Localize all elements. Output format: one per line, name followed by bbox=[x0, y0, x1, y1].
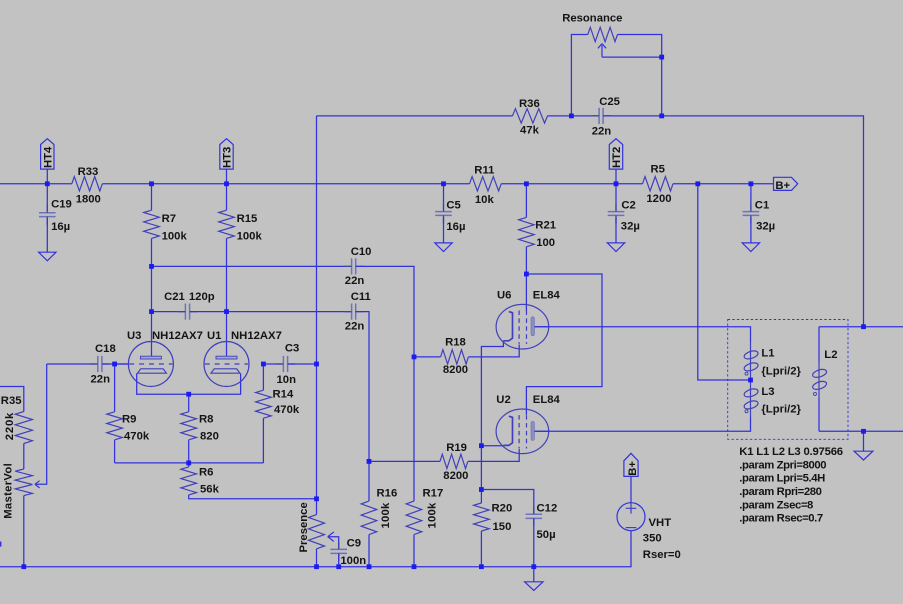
svg-text:HT3: HT3 bbox=[222, 147, 234, 168]
svg-text:22n: 22n bbox=[345, 275, 365, 287]
svg-text:B+: B+ bbox=[627, 461, 639, 476]
svg-text:Resonance: Resonance bbox=[562, 12, 622, 24]
svg-text:.param Zpri=8000: .param Zpri=8000 bbox=[739, 459, 826, 471]
svg-text:R11: R11 bbox=[474, 165, 494, 177]
svg-text:C9: C9 bbox=[347, 538, 361, 550]
svg-text:VHT: VHT bbox=[649, 517, 672, 529]
svg-text:MasterVol: MasterVol bbox=[2, 463, 14, 519]
svg-text:R5: R5 bbox=[651, 164, 665, 176]
svg-text:{Lpri/2}: {Lpri/2} bbox=[761, 366, 801, 378]
svg-text:U3: U3 bbox=[127, 330, 141, 342]
svg-text:L3: L3 bbox=[761, 386, 774, 398]
svg-text:100k: 100k bbox=[237, 231, 263, 243]
svg-text:Rser=0: Rser=0 bbox=[643, 549, 681, 561]
svg-text:R16: R16 bbox=[377, 487, 398, 499]
svg-text:R14: R14 bbox=[273, 389, 294, 401]
svg-text:.param Zsec=8: .param Zsec=8 bbox=[739, 499, 813, 511]
svg-text:R36: R36 bbox=[519, 98, 540, 110]
svg-text:16µ: 16µ bbox=[51, 221, 70, 233]
svg-text:350: 350 bbox=[643, 533, 662, 545]
svg-text:EL84: EL84 bbox=[533, 394, 561, 406]
svg-text:R20: R20 bbox=[492, 502, 513, 514]
svg-text:8200: 8200 bbox=[443, 364, 468, 376]
svg-text:C10: C10 bbox=[351, 246, 372, 258]
svg-text:C25: C25 bbox=[599, 96, 620, 108]
svg-text:22n: 22n bbox=[592, 125, 612, 137]
svg-text:L2: L2 bbox=[824, 349, 837, 361]
svg-text:100k: 100k bbox=[380, 502, 392, 528]
svg-text:56k: 56k bbox=[200, 483, 220, 495]
svg-text:U2: U2 bbox=[496, 394, 510, 406]
svg-text:470k: 470k bbox=[274, 404, 300, 416]
svg-text:100n: 100n bbox=[340, 555, 366, 567]
svg-text:C21: C21 bbox=[164, 291, 185, 303]
svg-text:100: 100 bbox=[536, 237, 555, 249]
svg-text:L1: L1 bbox=[761, 348, 774, 360]
svg-text:100k: 100k bbox=[427, 502, 439, 528]
svg-text:.param Lpri=5.4H: .param Lpri=5.4H bbox=[739, 473, 825, 485]
svg-text:C11: C11 bbox=[351, 291, 371, 303]
svg-text:HT2: HT2 bbox=[611, 147, 623, 168]
svg-text:R8: R8 bbox=[199, 413, 213, 425]
svg-text:16µ: 16µ bbox=[446, 221, 465, 233]
svg-text:K1 L1 L2 L3 0.97566: K1 L1 L2 L3 0.97566 bbox=[739, 446, 843, 458]
svg-text:R9: R9 bbox=[122, 413, 136, 425]
svg-text:R15: R15 bbox=[237, 213, 258, 225]
svg-text:1800: 1800 bbox=[76, 193, 101, 205]
svg-text:HT4: HT4 bbox=[42, 146, 54, 168]
svg-text:NH12AX7: NH12AX7 bbox=[152, 330, 203, 342]
svg-text:32µ: 32µ bbox=[621, 221, 640, 233]
svg-text:32µ: 32µ bbox=[756, 221, 775, 233]
svg-text:220k: 220k bbox=[4, 412, 16, 440]
svg-text:47k: 47k bbox=[520, 125, 540, 137]
svg-text:R35: R35 bbox=[1, 395, 22, 407]
svg-text:.param Rpri=280: .param Rpri=280 bbox=[739, 486, 821, 498]
svg-text:50µ: 50µ bbox=[537, 529, 556, 541]
svg-text:C1: C1 bbox=[755, 200, 769, 212]
svg-text:R18: R18 bbox=[445, 336, 466, 348]
svg-text:100k: 100k bbox=[162, 231, 188, 243]
svg-text:B+: B+ bbox=[775, 180, 790, 192]
svg-text:8200: 8200 bbox=[443, 470, 468, 482]
svg-text:10k: 10k bbox=[475, 194, 495, 206]
svg-text:10n: 10n bbox=[277, 374, 297, 386]
svg-text:Presence: Presence bbox=[298, 502, 310, 552]
svg-text:R6: R6 bbox=[199, 466, 213, 478]
svg-text:C18: C18 bbox=[95, 343, 116, 355]
svg-text:EL84: EL84 bbox=[533, 289, 561, 301]
svg-text:R19: R19 bbox=[446, 442, 467, 454]
svg-text:U1: U1 bbox=[207, 330, 221, 342]
svg-text:22n: 22n bbox=[345, 320, 365, 332]
svg-text:NH12AX7: NH12AX7 bbox=[231, 330, 282, 342]
svg-text:R7: R7 bbox=[162, 213, 176, 225]
svg-text:C12: C12 bbox=[537, 502, 558, 514]
svg-text:C19: C19 bbox=[51, 198, 72, 210]
svg-text:470k: 470k bbox=[124, 430, 150, 442]
svg-text:1200: 1200 bbox=[646, 193, 671, 205]
svg-text:R17: R17 bbox=[423, 487, 444, 499]
svg-text:C5: C5 bbox=[446, 200, 460, 212]
svg-text:R33: R33 bbox=[78, 166, 99, 178]
svg-text:R21: R21 bbox=[535, 220, 556, 232]
svg-text:C2: C2 bbox=[621, 200, 635, 212]
svg-text:C3: C3 bbox=[285, 343, 299, 355]
svg-text:820: 820 bbox=[200, 430, 219, 442]
svg-text:.param Rsec=0.7: .param Rsec=0.7 bbox=[739, 513, 823, 525]
svg-text:120p: 120p bbox=[189, 291, 215, 303]
svg-text:150: 150 bbox=[493, 521, 512, 533]
svg-text:{Lpri/2}: {Lpri/2} bbox=[761, 404, 801, 416]
svg-text:U6: U6 bbox=[497, 289, 511, 301]
svg-text:22n: 22n bbox=[91, 373, 111, 385]
